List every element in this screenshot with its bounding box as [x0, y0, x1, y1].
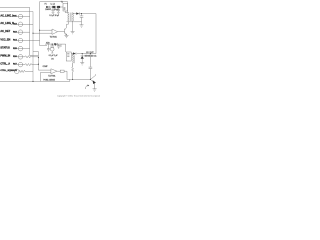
ground under C1: [52, 12, 55, 13]
wire output rail to right edge: [79, 14, 96, 54]
junction dot base: [90, 79, 91, 80]
wire Q1 collector to primary return: [67, 21, 69, 27]
Q1 emitter arrowhead: [66, 34, 67, 35]
junction dot node C5: [52, 44, 53, 45]
capacitor C1 drop: [51, 7, 54, 12]
wire ctrl branch to comparator box: [33, 52, 51, 71]
svg-text:L1 L2: L1 L2: [51, 3, 55, 5]
wire op-amp1 output to Q1 base: [58, 31, 65, 33]
resistor R8: [19, 70, 33, 72]
wire Q2 collector and emitter stubs: [94, 74, 97, 89]
svg-text:F1: F1: [45, 3, 47, 5]
wire opto winding return: [72, 54, 75, 67]
junction dot row7: [38, 64, 39, 65]
zener D6 bar and leads: [81, 54, 84, 63]
pin row 5 wire: [17, 48, 30, 50]
diode D1 cathode bar: [48, 6, 50, 8]
wire VCC rail from top: [40, 2, 68, 46]
diode D2 cathode bar: [78, 12, 80, 14]
svg-text:Copyright © 2016, Texas Instru: Copyright © 2016, Texas Instruments Inco…: [57, 95, 100, 98]
ground under Q2: [93, 89, 97, 91]
wire rail2: [49, 6, 63, 8]
svg-text:TLV7031: TLV7031: [48, 76, 55, 78]
transformer T1 core: [70, 13, 71, 21]
capacitor C3 (output): [80, 14, 84, 25]
pin row 7 wire: [17, 64, 26, 66]
svg-text:COMP: COMP: [43, 66, 49, 68]
wire Q1 collector rail tick: [67, 21, 82, 23]
plus mark: [55, 45, 56, 46]
transformer T1 primary winding: [67, 13, 70, 21]
component D4 on node wire: [54, 43, 57, 45]
inductor L1 (filled): [52, 6, 55, 8]
svg-text:TLV7031: TLV7031: [50, 36, 57, 38]
ground secondary return: [71, 32, 75, 34]
diode D3 cathode bar: [75, 52, 77, 54]
reference source circle: [50, 47, 54, 51]
op-amp U1 triangle: [52, 29, 58, 34]
connector circle P8: [14, 69, 19, 74]
capacitor C6: [57, 44, 60, 49]
svg-text:1N4007: 1N4007: [45, 9, 51, 11]
output diode D2: [76, 12, 79, 14]
capacitor C2 drop: [57, 7, 60, 12]
capacitor C5 vertical: [51, 44, 53, 46]
aux winding core line: [73, 55, 75, 63]
junction dot output cap: [81, 13, 82, 14]
junction dot winding return: [72, 79, 73, 80]
svg-text:T1: T1: [61, 2, 63, 4]
resistor R7: [25, 63, 38, 65]
ground bus bottom: [0, 80, 70, 82]
pin row 8 wire: [13, 70, 16, 72]
junction dot zener: [82, 53, 83, 54]
pin row 6 wire: [17, 56, 39, 58]
connector circle P6: [18, 55, 23, 60]
diode D4 cathode bar: [56, 43, 58, 45]
svg-text:PGND_SENSE: PGND_SENSE: [43, 80, 55, 82]
ground under C3: [80, 25, 84, 27]
svg-text:STATUS: STATUS: [0, 47, 10, 50]
capacitor C5b: [47, 44, 50, 52]
capacitor C5 plates: [50, 46, 54, 47]
ground below Q1: [64, 35, 68, 37]
svg-text:0.1 µF 1 µF: 0.1 µF 1 µF: [49, 55, 58, 57]
wire reference source lead: [51, 51, 53, 53]
connector circle P5: [18, 46, 23, 51]
connector circle P1: [18, 14, 23, 19]
ground under zener: [80, 63, 84, 65]
wire secondary bottom down: [72, 21, 74, 32]
svg-text:12 V OUT: 12 V OUT: [86, 52, 94, 54]
wire AC line input N (second rail): [0, 12, 33, 82]
pin row 4 wire: [17, 40, 40, 42]
fuse/diode D1 on AC rail 2: [46, 6, 49, 8]
wire AC line input L (top-left rail): [0, 7, 38, 55]
inductor L2 (filled): [57, 6, 60, 8]
connector circle P2: [18, 22, 23, 27]
wire op-amp1 inputs: [33, 30, 52, 33]
wire primary top stub: [68, 12, 70, 14]
wire feedback rail from right: [71, 53, 96, 55]
connector circle P4: [18, 38, 23, 43]
marks inside optocoupler: [67, 54, 69, 57]
svg-text:VCC_EN: VCC_EN: [0, 38, 10, 41]
optocoupler U3 box: [66, 52, 71, 61]
capacitor network node wire above op-amp2: [45, 44, 61, 47]
capacitor C7 on sense line: [89, 54, 93, 80]
zener diode D6: [81, 56, 84, 59]
ground under C2: [57, 12, 60, 13]
wire bus to base rail nub: [69, 79, 71, 81]
wire to opto: [64, 71, 67, 79]
transistor Q2: [90, 75, 95, 82]
pin row 2 wire: [17, 23, 34, 25]
wire op-amp2 output: [57, 70, 60, 72]
svg-text:0.1 µF 10 µF: 0.1 µF 10 µF: [49, 15, 59, 17]
resistor R12 (output series): [60, 70, 64, 72]
transformer T1 secondary winding: [72, 13, 75, 21]
rectifier module box: [63, 3, 68, 11]
wire opto top: [61, 44, 66, 52]
connector circle P7: [18, 62, 23, 67]
svg-text:SENSE 150 mA: SENSE 150 mA: [84, 54, 97, 57]
arrowhead of annotation: [87, 84, 89, 86]
curved arrow annotation: [85, 85, 88, 89]
wire module to transformer: [65, 2, 68, 13]
mark inside module: [64, 8, 66, 10]
op-amp U2 triangle: [51, 69, 57, 74]
diode D3 (feedback): [73, 52, 76, 54]
svg-text:AC_DET: AC_DET: [0, 30, 10, 33]
svg-text:PWM_IN: PWM_IN: [0, 55, 10, 58]
junction dot C7 top: [90, 53, 91, 54]
wire op-amp2 plus input: [41, 72, 51, 81]
wire secondary top to output diode: [73, 13, 77, 14]
svg-text:CTRL_A: CTRL_A: [0, 62, 10, 65]
svg-text:CTRL_SQWAVE: CTRL_SQWAVE: [0, 69, 17, 72]
pin row 1 wire: [17, 16, 30, 18]
pin row 3 wire: [17, 31, 30, 33]
junction dot bus: [32, 81, 33, 82]
junction dot op-amp1 minus tap: [32, 33, 33, 34]
junction dot row6: [38, 57, 39, 58]
junction dot op-amp1 plus tap: [39, 30, 40, 31]
wire transistor base rail: [67, 78, 90, 80]
resistor R20 vertical: [72, 67, 74, 79]
connector circle P3: [18, 30, 23, 35]
transistor Q1: [65, 27, 67, 34]
wire Q1 emitter: [66, 34, 68, 37]
